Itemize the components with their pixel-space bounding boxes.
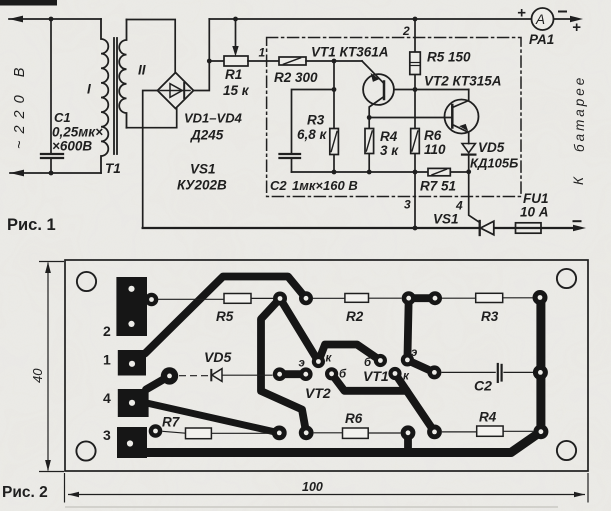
svg-text:0,25мк×: 0,25мк× <box>52 125 103 140</box>
svg-text:PA1: PA1 <box>529 32 554 47</box>
svg-text:VD5: VD5 <box>478 140 505 155</box>
svg-text:б: б <box>364 357 372 369</box>
svg-text:R6: R6 <box>424 128 442 143</box>
svg-text:2: 2 <box>103 323 111 339</box>
svg-text:1: 1 <box>259 46 266 60</box>
svg-text:Рис. 2: Рис. 2 <box>2 484 48 501</box>
svg-text:II: II <box>138 63 146 78</box>
svg-text:С1: С1 <box>54 110 71 125</box>
svg-text:Т1: Т1 <box>105 161 121 176</box>
svg-text:+: + <box>572 19 581 36</box>
svg-text:R1: R1 <box>225 67 242 82</box>
svg-text:КД105Б: КД105Б <box>470 156 518 171</box>
svg-text:I: I <box>87 82 91 97</box>
svg-text:R7 51: R7 51 <box>420 179 456 194</box>
svg-text:VD5: VD5 <box>204 349 231 365</box>
svg-text:R5: R5 <box>216 309 234 324</box>
svg-text:э: э <box>411 347 417 359</box>
svg-text:4: 4 <box>455 199 463 213</box>
svg-text:R7: R7 <box>162 415 181 430</box>
svg-text:VT1: VT1 <box>363 368 389 384</box>
svg-text:110: 110 <box>424 142 446 157</box>
svg-text:3 к: 3 к <box>380 143 399 158</box>
svg-text:2: 2 <box>402 24 410 38</box>
svg-text:VT1 КТ361А: VT1 КТ361А <box>311 45 389 60</box>
svg-text:К: К <box>571 176 586 185</box>
svg-text:R5 150: R5 150 <box>427 50 471 65</box>
svg-text:VT2: VT2 <box>305 385 331 401</box>
svg-text:A: A <box>535 12 545 27</box>
svg-text:3: 3 <box>404 198 411 212</box>
svg-text:VT2 КТ315А: VT2 КТ315А <box>424 74 502 89</box>
svg-text:R3: R3 <box>307 113 325 128</box>
svg-text:R2: R2 <box>346 309 364 324</box>
svg-text:VS1: VS1 <box>190 162 216 177</box>
svg-text:Рис. 1: Рис. 1 <box>7 216 56 234</box>
svg-text:батарее: батарее <box>572 75 587 152</box>
svg-text:э: э <box>299 358 305 370</box>
svg-text:R6: R6 <box>345 411 363 426</box>
svg-text:6,8 к: 6,8 к <box>297 127 328 142</box>
svg-text:100: 100 <box>302 480 323 494</box>
svg-text:R3: R3 <box>481 309 499 324</box>
svg-text:R2 300: R2 300 <box>274 70 318 85</box>
svg-text:б: б <box>339 369 347 381</box>
svg-text:10 А: 10 А <box>520 205 549 220</box>
svg-text:КУ202В: КУ202В <box>177 178 227 193</box>
svg-text:Д245: Д245 <box>190 128 224 143</box>
svg-text:3: 3 <box>103 427 111 443</box>
svg-text:VD1–VD4: VD1–VD4 <box>184 111 243 126</box>
svg-text:С2: С2 <box>474 378 492 394</box>
svg-text:40: 40 <box>30 368 45 383</box>
svg-text:4: 4 <box>103 390 111 406</box>
svg-text:~220 В: ~220 В <box>12 61 28 149</box>
svg-text:VS1: VS1 <box>433 212 459 227</box>
svg-text:1: 1 <box>103 352 111 368</box>
svg-text:15 к: 15 к <box>223 83 250 98</box>
svg-text:+: + <box>517 5 526 22</box>
svg-text:R4: R4 <box>479 410 497 425</box>
svg-text:1мк×160 В: 1мк×160 В <box>292 178 358 193</box>
svg-text:R4: R4 <box>380 129 398 144</box>
svg-text:С2: С2 <box>270 178 287 193</box>
svg-text:×600В: ×600В <box>52 139 92 154</box>
